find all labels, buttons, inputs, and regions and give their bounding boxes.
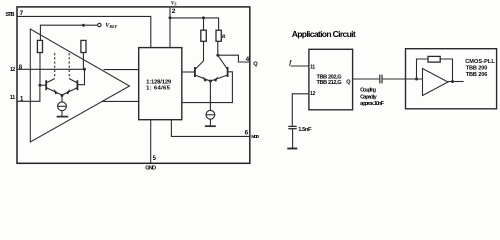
- svg-text:VREF: VREF: [105, 22, 117, 29]
- wire pin 8 input: [17, 68, 85, 70]
- wire U2 Q output: [353, 78, 380, 80]
- junction feedback: [415, 78, 418, 81]
- junction left base: [38, 84, 41, 87]
- current source I1: [57, 95, 69, 116]
- wire Vs vertical to divider: [169, 7, 171, 48]
- svg-text:Application Circuit: Application Circuit: [292, 29, 356, 39]
- divider block U1: [139, 48, 182, 120]
- wire Q output: [218, 55, 250, 62]
- junction rail R3: [202, 16, 205, 19]
- resistor R5 feedback: [428, 56, 440, 62]
- svg-text:5: 5: [153, 156, 157, 162]
- resistor bias left: [37, 40, 42, 52]
- wire U2 pin12 to C1: [292, 94, 309, 126]
- svg-text:TBB 206: TBB 206: [466, 72, 488, 78]
- resistor R4 load right: [216, 30, 221, 55]
- svg-text:VS: VS: [171, 0, 177, 6]
- wire divider to GND: [150, 120, 152, 164]
- terminal Vref: [98, 23, 101, 26]
- ground: [287, 148, 297, 150]
- svg-text:MOD: MOD: [251, 134, 259, 140]
- svg-text:1.5nF: 1.5nF: [298, 127, 312, 133]
- svg-text:TBB 212,G: TBB 212,G: [317, 80, 342, 86]
- svg-text:1: 64/65: 1: 64/65: [146, 85, 171, 91]
- transistor Q2: [62, 79, 77, 95]
- resistor bias right: [81, 40, 86, 52]
- prescaler block U2: [309, 49, 353, 110]
- current source I2: [205, 81, 216, 126]
- svg-text:CMOS-PLL: CMOS-PLL: [465, 59, 495, 65]
- wire amp output: [448, 81, 464, 83]
- wire C1 to ground: [292, 129, 294, 148]
- wire comparator out top: [104, 69, 139, 71]
- svg-text:Coupling: Coupling: [360, 88, 377, 94]
- svg-text:TBB 200: TBB 200: [466, 65, 488, 71]
- resistor R3 load left: [201, 18, 207, 61]
- svg-text:R: R: [221, 34, 226, 40]
- svg-text:STB: STB: [5, 12, 14, 18]
- wire Vs rail to output resistors: [170, 18, 219, 30]
- wire comparator out bottom: [102, 100, 139, 102]
- wire feedback right: [440, 59, 452, 82]
- comparator A1: [30, 29, 129, 142]
- junction Q output node: [216, 54, 219, 57]
- wire f input: [291, 65, 309, 67]
- op-amp U4: [423, 69, 449, 96]
- IC package outline: [17, 7, 250, 163]
- wire bias left to base node: [39, 53, 41, 86]
- svg-text:2: 2: [172, 8, 176, 15]
- wire divider to Q3 base: [182, 71, 195, 73]
- transistor Q3: [195, 61, 210, 82]
- svg-text:approx. 10nF: approx. 10nF: [360, 101, 384, 107]
- capacitor C1: [288, 126, 296, 128]
- svg-text:f: f: [289, 59, 292, 66]
- junction pin8 right base: [83, 68, 86, 71]
- svg-text:8: 8: [19, 65, 23, 71]
- wire STB to divider: [17, 16, 151, 47]
- dashed collector right: [68, 53, 70, 79]
- junction Vref right resistor: [82, 24, 85, 27]
- wire C2 to PLL: [383, 78, 423, 80]
- transistor Q4: [211, 55, 228, 82]
- wire Vref rail: [40, 25, 97, 40]
- wire feedback left: [417, 59, 429, 79]
- svg-text:11: 11: [310, 64, 315, 70]
- wire pin8 to Q2 base: [77, 69, 84, 84]
- svg-text:12: 12: [10, 67, 15, 73]
- svg-text:12: 12: [310, 91, 316, 97]
- dashed collector left: [54, 53, 56, 79]
- svg-text:Q: Q: [346, 79, 351, 85]
- wire bias right to pin8 node: [82, 53, 84, 70]
- wire pin 1 input: [17, 85, 40, 101]
- junction amp output: [451, 80, 454, 83]
- svg-text:Capacity: Capacity: [360, 95, 377, 101]
- svg-text:11: 11: [10, 95, 15, 101]
- coupling capacitor C2: [380, 75, 382, 84]
- junction Vs: [169, 16, 172, 19]
- svg-text:GND: GND: [145, 166, 156, 172]
- svg-text:Q: Q: [253, 61, 258, 67]
- junction emitters A1: [61, 94, 64, 97]
- transistor Q1: [40, 79, 62, 95]
- wire divider to Q4 base: [182, 72, 233, 103]
- PLL block U3: [406, 49, 497, 109]
- junction emitters output: [209, 80, 212, 83]
- svg-text:6: 6: [245, 130, 249, 136]
- wire MOD: [171, 120, 249, 137]
